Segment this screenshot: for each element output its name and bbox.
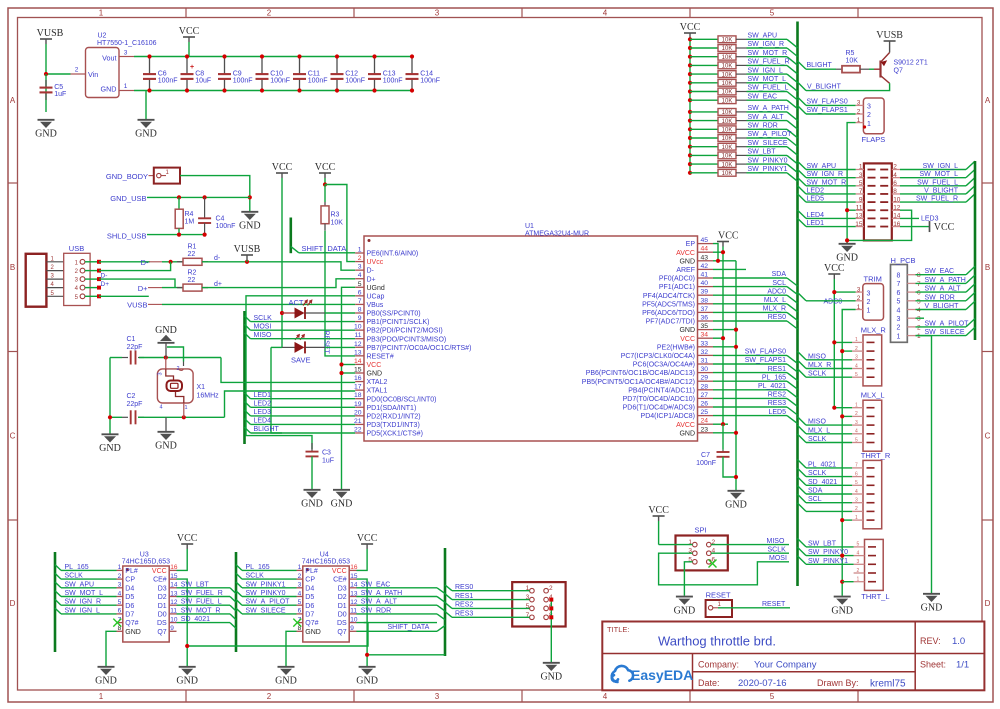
svg-text:3: 3 xyxy=(857,559,860,565)
bus entry + net label MLX_R (MLX_R) xyxy=(798,360,807,368)
pin 3/4 of header xyxy=(856,177,864,179)
bus entry + net label SW_PINKY0 (THRT_L) xyxy=(798,547,807,555)
svg-text:42: 42 xyxy=(701,263,709,270)
svg-text:LED5: LED5 xyxy=(768,409,786,416)
pin 5 of U3 (D6) xyxy=(117,604,123,606)
svg-text:3: 3 xyxy=(298,582,302,589)
svg-text:4: 4 xyxy=(855,489,858,495)
svg-text:SW_A_PATH: SW_A_PATH xyxy=(748,105,789,112)
svg-text:Q7: Q7 xyxy=(157,629,166,636)
svg-text:10: 10 xyxy=(354,324,362,331)
svg-text:PB4(PCINT4/ADC11): PB4(PCINT4/ADC11) xyxy=(628,387,695,394)
svg-text:2: 2 xyxy=(267,692,272,701)
pin 41 of U1 (PF0(ADC0)) xyxy=(698,277,714,279)
ground GND (SPI) xyxy=(676,596,693,598)
connector GND_BODY 1-pin xyxy=(154,168,180,184)
svg-text:GND: GND xyxy=(275,676,297,687)
capacitor C11 xyxy=(299,57,301,74)
svg-text:RESET: RESET xyxy=(706,591,731,600)
bus main vertical xyxy=(796,22,799,587)
wire GND_USB xyxy=(147,196,250,198)
svg-text:LED4: LED4 xyxy=(254,418,272,425)
wire+net label SW_PINKY0 (U4 pin4) xyxy=(236,591,242,597)
wire+net label PL_4021 (U1 pin 28) xyxy=(713,389,787,391)
svg-text:C12: C12 xyxy=(345,71,358,78)
svg-text:100nF: 100nF xyxy=(158,78,178,85)
bus entry + net label SCLK xyxy=(245,316,251,322)
pin 14 of U4 (D3) xyxy=(349,587,356,589)
svg-text:12: 12 xyxy=(354,341,362,348)
svg-text:5: 5 xyxy=(298,599,302,606)
resistor R16 10K (SW_A_PATH) xyxy=(688,110,692,114)
bus entry + net label SW_LBT (THRT_L) xyxy=(798,539,807,547)
svg-text:16MHz: 16MHz xyxy=(197,393,220,400)
svg-text:10K: 10K xyxy=(722,98,733,104)
svg-text:1uF: 1uF xyxy=(322,458,334,465)
svg-text:10K: 10K xyxy=(722,46,733,52)
wire+net label SCLK (SPI) xyxy=(711,552,789,554)
svg-text:7: 7 xyxy=(358,298,362,305)
pin 12 of U1 (PB7(PCINT7/OC0A/OC1C/RTS#)) xyxy=(355,346,364,348)
svg-text:7: 7 xyxy=(917,281,921,288)
svg-text:A: A xyxy=(10,96,16,105)
wire CE# to GND (U4) xyxy=(357,579,368,666)
svg-text:3: 3 xyxy=(855,420,858,426)
pin 13/14 of header xyxy=(856,217,864,219)
wire VCC over to pin2 drop xyxy=(325,185,355,262)
svg-text:D1: D1 xyxy=(338,603,347,610)
node X1 top junction xyxy=(164,355,168,359)
svg-text:3: 3 xyxy=(859,172,863,179)
svg-text:R2: R2 xyxy=(188,270,197,277)
pin 14 of U3 (D3) xyxy=(169,587,176,589)
node junctions C13 xyxy=(372,54,376,58)
bus entry + net label MISO (MLX_L) xyxy=(798,417,807,425)
capacitor C3 1uF xyxy=(311,443,313,451)
pin 2 of U3 (CP) xyxy=(117,578,123,580)
pin 11 of U4 (D0) xyxy=(349,613,356,615)
svg-text:16: 16 xyxy=(354,375,362,382)
svg-text:8: 8 xyxy=(358,306,362,313)
capacitor C6 xyxy=(149,57,151,74)
svg-text:PF0(ADC0): PF0(ADC0) xyxy=(659,276,695,283)
logo EasyEDA xyxy=(612,666,633,682)
svg-text:2: 2 xyxy=(857,108,861,115)
wire+net label MISO (SPI) xyxy=(711,544,789,546)
bus entry + net label MISO xyxy=(245,333,251,339)
svg-text:9: 9 xyxy=(358,315,362,322)
wire VCC top rail xyxy=(134,56,414,58)
svg-text:AVCC: AVCC xyxy=(676,250,695,257)
svg-text:10K: 10K xyxy=(722,162,733,168)
pin 40 of U1 (PF1(ADC1)) xyxy=(698,286,714,288)
svg-text:3: 3 xyxy=(857,286,861,293)
wire VBUS row1 xyxy=(99,261,150,263)
svg-text:VUSB: VUSB xyxy=(127,301,147,310)
svg-text:RES2: RES2 xyxy=(455,602,473,609)
svg-text:SW_MOT_L: SW_MOT_L xyxy=(748,76,787,83)
svg-text:R1: R1 xyxy=(188,244,197,251)
pin 9 of U3 (Q7) xyxy=(169,630,176,632)
ground GND (C3) xyxy=(304,489,321,491)
svg-text:AREF: AREF xyxy=(676,267,695,274)
svg-text:33: 33 xyxy=(701,340,709,347)
pin 1/2 of header xyxy=(856,169,864,171)
svg-text:DS: DS xyxy=(157,620,167,627)
bus entry + net label SCLK (MLX_L) xyxy=(798,434,807,442)
svg-text:100nF: 100nF xyxy=(308,78,328,85)
svg-text:5: 5 xyxy=(770,692,775,701)
wire D- to USB pin2 xyxy=(99,262,171,271)
svg-text:SHLD_USB: SHLD_USB xyxy=(107,232,147,241)
wire XTAL2 from crystal xyxy=(221,358,355,383)
pin 3 of U2 xyxy=(119,56,134,58)
mcu U1 ATMEGA32U4-MUR xyxy=(364,236,698,441)
svg-text:100nF: 100nF xyxy=(420,78,440,85)
svg-text:SW_FLAPS1: SW_FLAPS1 xyxy=(745,357,786,364)
svg-text:MLX_L: MLX_L xyxy=(764,297,786,304)
pin 31 of U1 (PC6(OC3A/OC4A#)) xyxy=(698,363,714,365)
wire+net label RES0 (U1 pin 36) xyxy=(713,320,787,322)
pin 10 of U3 (DS) xyxy=(169,622,176,624)
svg-text:ADC0: ADC0 xyxy=(767,288,786,295)
wire U3 right to bus xyxy=(177,613,231,615)
svg-text:H_PCB: H_PCB xyxy=(891,256,916,265)
svg-text:C9: C9 xyxy=(233,71,242,78)
svg-text:100nF: 100nF xyxy=(696,460,716,467)
svg-text:C: C xyxy=(10,432,16,441)
svg-text:Vin: Vin xyxy=(88,70,98,79)
wire TRIM pin1 to GND net xyxy=(842,310,855,582)
svg-text:D4: D4 xyxy=(305,585,314,592)
pin 13 of U1 (RESET#) xyxy=(355,355,364,357)
pin 1 of U4 (PL#) xyxy=(297,569,303,571)
node junctions C11 xyxy=(297,54,301,58)
svg-text:22pF: 22pF xyxy=(127,344,143,351)
resistor R18 10K (SW_RDR) xyxy=(688,127,692,131)
svg-text:SW_FUEL_L: SW_FUEL_L xyxy=(917,179,958,186)
svg-text:5: 5 xyxy=(118,599,122,606)
pin 5 of U4 (D6) xyxy=(297,604,303,606)
svg-text:4: 4 xyxy=(358,272,362,279)
svg-text:4: 4 xyxy=(897,307,901,314)
svg-text:d-: d- xyxy=(214,255,221,262)
svg-text:U4: U4 xyxy=(320,552,329,559)
svg-text:GND: GND xyxy=(99,443,121,454)
svg-text:3: 3 xyxy=(358,264,362,271)
svg-text:C14: C14 xyxy=(420,71,433,78)
svg-text:25: 25 xyxy=(701,409,709,416)
pin 4 of U3 (D5) xyxy=(117,596,123,598)
svg-text:D-: D- xyxy=(367,268,375,275)
svg-text:10K: 10K xyxy=(722,145,733,151)
wire VCC to MLX_L pin1 xyxy=(834,407,852,409)
svg-text:3: 3 xyxy=(124,50,128,57)
connector FLAPS 3-pin xyxy=(863,98,884,134)
svg-text:VBus: VBus xyxy=(367,302,384,309)
svg-text:SAVE: SAVE xyxy=(291,356,310,365)
wire SHLD_USB xyxy=(147,234,205,236)
bus entry SHIFT_DATA xyxy=(291,246,299,252)
wire+net label SW_IGN_R (U3 pin5) xyxy=(55,599,61,605)
wire UCap to C3 xyxy=(246,296,355,449)
wire GND_BODY to GND xyxy=(180,176,250,211)
shift register U4 74HC165D,653 xyxy=(303,566,349,642)
bus entry SW_FLAPS1 xyxy=(798,106,807,115)
wire D+ to USB pin3 xyxy=(99,279,175,288)
wire GND pin8 (U4) xyxy=(286,631,297,666)
svg-text:GND: GND xyxy=(331,499,353,510)
svg-text:Vout: Vout xyxy=(102,54,116,63)
wire CE# to GND (U3) xyxy=(177,579,188,666)
wire RES gnd chain xyxy=(550,600,552,662)
wire XTAL1 from crystal xyxy=(225,391,356,417)
wire U4 right to bus xyxy=(356,604,437,606)
svg-text:10K: 10K xyxy=(846,58,859,65)
svg-text:SW_FUEL_R: SW_FUEL_R xyxy=(748,59,790,66)
pin 22 of U1 (PD5(XCK1/CTS#)) xyxy=(355,432,364,434)
svg-text:THRT_L: THRT_L xyxy=(861,592,889,601)
node VUSB junction xyxy=(44,72,48,76)
pin 5 of U1 (UGnd) xyxy=(355,286,364,288)
svg-text:SCLK: SCLK xyxy=(768,546,787,553)
transistor Q7 S9012 2T1 (PNP) xyxy=(874,68,881,70)
pin 15 of U1 (GND) xyxy=(355,372,364,374)
svg-text:10K: 10K xyxy=(722,171,733,177)
wire AVCC pin24 xyxy=(713,423,728,425)
wire U4 gnd chain stub xyxy=(367,654,445,656)
svg-text:2: 2 xyxy=(857,568,860,574)
connector TRIM 3-pin xyxy=(863,284,884,321)
connector THRT_L 5-pin xyxy=(865,539,884,590)
svg-text:6: 6 xyxy=(897,290,901,297)
node D- junction xyxy=(169,260,173,264)
bus entry + net label SCLK (MLX_R) xyxy=(798,369,807,377)
wire+net label SW_FUEL_R (header right) xyxy=(900,201,966,203)
svg-text:1: 1 xyxy=(99,9,104,18)
svg-text:GND: GND xyxy=(101,85,117,94)
resistor R8 10K (SW_APU) xyxy=(688,37,692,41)
svg-text:12: 12 xyxy=(893,204,901,211)
svg-text:3: 3 xyxy=(867,290,871,297)
ground GND (U2) xyxy=(138,119,155,121)
pin 1 of U2 xyxy=(119,90,134,92)
svg-text:SW_LBT: SW_LBT xyxy=(748,149,777,156)
bus entry + net label MOSI xyxy=(245,324,251,330)
svg-text:26: 26 xyxy=(701,401,709,408)
svg-text:PB1(PCINT1/SCLK): PB1(PCINT1/SCLK) xyxy=(367,319,430,326)
svg-text:UCap: UCap xyxy=(367,293,385,300)
svg-text:D4: D4 xyxy=(125,585,134,592)
resistor R15 10K (SW_EAC) xyxy=(688,98,692,102)
wire GND drop from U2 pin1 xyxy=(145,91,147,120)
svg-text:2: 2 xyxy=(855,346,858,352)
wire UGnd/VCC/GND drop xyxy=(342,287,356,489)
svg-text:3: 3 xyxy=(855,498,858,504)
svg-text:SW_APU: SW_APU xyxy=(748,33,778,40)
svg-text:VCC: VCC xyxy=(272,162,293,173)
svg-text:SW_PINKY0: SW_PINKY0 xyxy=(748,157,788,164)
node VCC junction R3 xyxy=(323,182,327,186)
pin 2 of U1 (UVcc) xyxy=(355,261,364,263)
node VUSB junction on d- xyxy=(245,260,249,264)
svg-text:11: 11 xyxy=(354,332,361,339)
crystal X1 16MHz xyxy=(165,358,167,369)
svg-text:PL_165: PL_165 xyxy=(762,374,786,381)
svg-text:PD6(T1/OC4D#/ADC9): PD6(T1/OC4D#/ADC9) xyxy=(623,405,695,412)
svg-text:1: 1 xyxy=(99,692,104,701)
svg-text:4: 4 xyxy=(855,363,858,369)
wire U3 right to bus xyxy=(177,622,231,624)
svg-text:D0: D0 xyxy=(158,612,167,619)
wire+net label RES3 xyxy=(445,612,452,618)
svg-text:2: 2 xyxy=(867,112,871,119)
svg-text:2: 2 xyxy=(298,573,302,580)
svg-text:20: 20 xyxy=(354,409,362,416)
wire+net label LED3 (header right) xyxy=(900,217,919,219)
svg-text:PD2(RXD1/INT2): PD2(RXD1/INT2) xyxy=(367,413,421,420)
pin 12 of U4 (D1) xyxy=(349,604,356,606)
svg-text:ADC0: ADC0 xyxy=(824,299,843,306)
svg-text:2: 2 xyxy=(893,164,897,171)
pin 37 of U1 (PF6(ADC6/TDO)) xyxy=(698,311,714,313)
wire SPI pin5 to GND xyxy=(684,562,692,596)
wire FLAPS pin1 to GND xyxy=(847,123,856,243)
resistor R2 22 xyxy=(177,287,183,289)
svg-text:1/1: 1/1 xyxy=(956,660,969,671)
svg-text:2: 2 xyxy=(177,366,180,372)
svg-text:MLX_L: MLX_L xyxy=(861,391,885,400)
svg-text:10K: 10K xyxy=(722,110,733,116)
svg-text:4: 4 xyxy=(603,9,608,18)
svg-text:D0: D0 xyxy=(338,612,347,619)
node GND_USB junction xyxy=(248,195,252,199)
pin 27 of U1 (PD7(T0/OC4D/ADC10)) xyxy=(698,397,714,399)
svg-text:13: 13 xyxy=(855,213,863,220)
ground GND (RES connector) xyxy=(543,662,560,664)
svg-text:TRIM: TRIM xyxy=(864,275,882,284)
pin 28 of U1 (PB4(PCINT4/ADC11)) xyxy=(698,389,714,391)
svg-text:SW_FUEL_R: SW_FUEL_R xyxy=(916,196,958,203)
wire VUSB to U1 pin7 VBus xyxy=(162,303,355,305)
ground GND (H_PCB) xyxy=(923,593,940,595)
node junctions C10 xyxy=(260,54,264,58)
capacitor C5 xyxy=(45,74,47,112)
wire+net label RES1 xyxy=(445,594,452,600)
svg-text:V_BLIGHT: V_BLIGHT xyxy=(807,84,842,91)
svg-text:FLAPS: FLAPS xyxy=(862,135,886,144)
svg-text:11: 11 xyxy=(350,608,357,615)
pin 43 of U1 (GND) xyxy=(698,260,714,262)
wire+net label V_BLIGHT (header right) xyxy=(900,193,966,195)
svg-text:D7: D7 xyxy=(125,612,134,619)
svg-text:1: 1 xyxy=(917,333,921,340)
svg-text:3: 3 xyxy=(118,582,122,589)
svg-text:A: A xyxy=(985,96,991,105)
svg-text:1.0: 1.0 xyxy=(952,636,965,647)
no-connect X on SPI pin6 xyxy=(709,560,717,568)
svg-text:17: 17 xyxy=(354,384,362,391)
wire+net label RES0 xyxy=(445,585,452,591)
svg-text:4: 4 xyxy=(160,405,163,411)
svg-text:1: 1 xyxy=(118,564,122,571)
svg-text:5: 5 xyxy=(855,372,858,378)
pin 6 of U3 (D7) xyxy=(117,613,123,615)
svg-text:7: 7 xyxy=(855,463,858,469)
pin 35 of U1 (GND) xyxy=(698,329,714,331)
ground GND (U4 right) xyxy=(359,666,376,668)
svg-text:7: 7 xyxy=(897,281,901,288)
shift register U3 74HC165D,653 xyxy=(123,566,169,642)
svg-text:10K: 10K xyxy=(331,220,344,227)
pin 42 of U1 (AREF) xyxy=(698,268,714,270)
svg-text:PE6(INT.6/AIN0): PE6(INT.6/AIN0) xyxy=(367,251,419,258)
svg-text:LED3: LED3 xyxy=(254,409,272,416)
wire VCC led column xyxy=(281,313,283,347)
wire U4 right to bus xyxy=(356,613,437,615)
svg-text:9: 9 xyxy=(170,625,174,632)
svg-text:9: 9 xyxy=(859,196,863,203)
svg-text:VCC: VCC xyxy=(934,222,955,233)
svg-text:10uF: 10uF xyxy=(195,78,211,85)
svg-text:CE#: CE# xyxy=(153,577,167,584)
connector 16-pin header xyxy=(864,163,892,240)
svg-text:PD0(OC0B/SCL/INT0): PD0(OC0B/SCL/INT0) xyxy=(367,396,437,403)
svg-text:X1: X1 xyxy=(197,384,206,391)
bus U3 left xyxy=(54,552,57,652)
bus entry + net label MLX_L (MLX_L) xyxy=(798,425,807,433)
svg-text:GND_USB: GND_USB xyxy=(110,194,146,203)
wire+net label RES3 (U1 pin 26) xyxy=(713,406,787,408)
pin 16 of U1 (XTAL2) xyxy=(355,381,364,383)
no-connect X on U4 pin7 xyxy=(293,619,301,627)
bus entry + net label LED1 xyxy=(245,393,251,399)
svg-text:B: B xyxy=(985,263,990,272)
wire+net label SW_PINKY1 (U4 pin3) xyxy=(236,582,242,588)
bus SHIFT_DATA stub xyxy=(289,218,292,254)
wire+net label SDA (U1 pin 41) xyxy=(713,277,787,279)
svg-text:SCL: SCL xyxy=(772,280,786,287)
svg-text:D+: D+ xyxy=(367,276,376,283)
svg-text:+: + xyxy=(190,64,194,71)
svg-text:GND: GND xyxy=(367,371,383,378)
svg-text:PB7(PCINT7/OC0A/OC1C/RTS#): PB7(PCINT7/OC0A/OC1C/RTS#) xyxy=(367,345,472,352)
pin 16 of U3 (VCC) xyxy=(169,569,176,571)
svg-text:SW_IGN_L: SW_IGN_L xyxy=(923,163,959,170)
bus RES vertical xyxy=(444,548,447,656)
svg-text:GND: GND xyxy=(921,603,943,614)
svg-text:PD5(XCK1/CTS#): PD5(XCK1/CTS#) xyxy=(367,431,423,438)
svg-text:1: 1 xyxy=(855,403,858,409)
svg-text:11: 11 xyxy=(856,204,863,211)
resistor R12 10K (SW_IGN_L) xyxy=(688,72,692,76)
svg-text:4: 4 xyxy=(855,429,858,435)
svg-text:21: 21 xyxy=(354,418,362,425)
svg-text:C: C xyxy=(985,432,991,441)
wire U4 right to bus xyxy=(356,587,437,589)
wire VCC to SPI pin1 xyxy=(659,544,693,546)
pin 23 of U1 (GND) xyxy=(698,432,714,434)
svg-text:R3: R3 xyxy=(331,212,340,219)
svg-text:PE2(HWB#): PE2(HWB#) xyxy=(657,344,695,351)
pin 39 of U1 (PF4(ADC4/TCK)) xyxy=(698,294,714,296)
svg-text:1: 1 xyxy=(867,308,871,315)
svg-text:SW_RDR: SW_RDR xyxy=(748,123,778,130)
svg-text:C11: C11 xyxy=(308,71,320,78)
svg-text:SW_IGN_L: SW_IGN_L xyxy=(748,67,784,74)
node GND drops xyxy=(339,362,343,366)
svg-text:8: 8 xyxy=(893,188,897,195)
